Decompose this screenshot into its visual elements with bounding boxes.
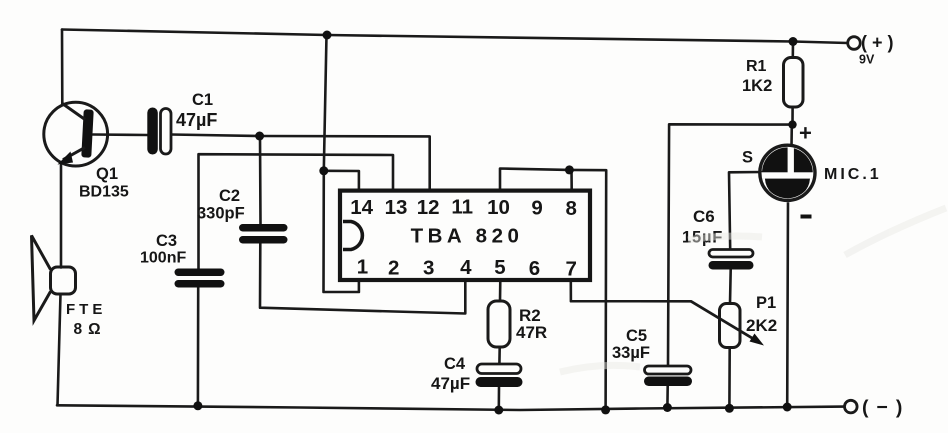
- node ground MIC.1: [783, 403, 792, 412]
- svg-text:47µF: 47µF: [431, 374, 470, 393]
- wire top +9V rail: [62, 30, 848, 44]
- node C pins 8-10 junction: [565, 165, 574, 174]
- wire C5 to ground rail: [666, 386, 669, 407]
- svg-text:100nF: 100nF: [140, 250, 186, 267]
- wire node B to pin 14: [324, 171, 359, 191]
- wire R1 to node E: [791, 107, 794, 125]
- node ground C3: [193, 401, 202, 410]
- transistor Q1: [44, 102, 108, 166]
- svg-text:4: 4: [460, 256, 472, 279]
- svg-text:11: 11: [451, 196, 473, 219]
- wire speaker to ground rail: [58, 294, 61, 405]
- scan smudges (decorative): [560, 208, 946, 372]
- wire MIC.1 to ground rail: [786, 200, 789, 407]
- wire node C to ground rail: [569, 170, 606, 410]
- node A junction after C1: [255, 132, 264, 141]
- wire MIC.1 S to C6: [729, 172, 762, 250]
- node ground P1: [725, 404, 734, 413]
- svg-text:R1: R1: [746, 58, 767, 75]
- svg-text:C6: C6: [693, 207, 715, 226]
- terminal (-): [845, 400, 858, 413]
- node ground C5: [663, 403, 672, 412]
- svg-text:7: 7: [565, 258, 576, 281]
- speaker FTE: [32, 236, 76, 321]
- svg-text:330pF: 330pF: [197, 205, 245, 223]
- capacitor C1: [147, 108, 171, 155]
- svg-text:(−): (−): [862, 397, 910, 419]
- svg-text:C3: C3: [156, 232, 177, 250]
- svg-text:C1: C1: [192, 91, 213, 109]
- node top rail R1 junction: [789, 37, 798, 46]
- svg-text:2K2: 2K2: [746, 316, 777, 335]
- potentiometer P1: [720, 304, 741, 348]
- wire node E to C5: [668, 124, 792, 366]
- svg-text:13: 13: [385, 196, 408, 219]
- svg-text:3: 3: [423, 257, 434, 280]
- label mic minus: [801, 215, 812, 219]
- node E mic supply junction: [788, 120, 796, 128]
- potentiometer P1 wiper arrow: [691, 301, 764, 345]
- wire P1 to ground rail: [728, 348, 731, 409]
- wire C4 to ground rail: [497, 388, 500, 411]
- svg-text:33µF: 33µF: [612, 344, 650, 362]
- capacitor C5: [644, 366, 692, 386]
- svg-text:TBA 820: TBA 820: [411, 225, 524, 248]
- capacitor C4: [476, 364, 523, 387]
- wire pin 13 to C3: [199, 154, 394, 269]
- svg-text:FTE: FTE: [66, 301, 106, 318]
- wire node E to MIC.1: [790, 125, 793, 147]
- wire pin 8 stub: [570, 170, 573, 191]
- capacitor C3: [175, 269, 225, 288]
- svg-text:6: 6: [529, 257, 540, 280]
- svg-text:S: S: [742, 149, 753, 167]
- U1 pin numbers bottom row: [357, 256, 577, 281]
- wire pin 10 to node C: [500, 169, 569, 191]
- wire C3 to ground rail: [197, 288, 200, 406]
- wire node A to pin 12: [260, 136, 430, 191]
- svg-text:MIC.1: MIC.1: [824, 166, 882, 183]
- resistor R1: [784, 58, 804, 108]
- wire R2 to C4: [498, 347, 501, 364]
- wire pin 5 to R2: [499, 280, 502, 301]
- svg-text:8Ω: 8Ω: [74, 321, 107, 338]
- wire Q1 base to C1: [93, 133, 148, 136]
- svg-text:1: 1: [357, 256, 368, 279]
- svg-text:2: 2: [388, 257, 399, 280]
- U1 pin numbers top row: [350, 196, 577, 221]
- svg-text:Q1: Q1: [96, 165, 118, 183]
- wire C6 to P1: [729, 270, 732, 304]
- node ground C4: [494, 406, 503, 415]
- svg-text:9: 9: [531, 197, 542, 220]
- svg-text:47R: 47R: [516, 323, 547, 342]
- node top rail junction: [323, 31, 332, 40]
- microphone MIC.1: [760, 145, 816, 201]
- svg-text:C5: C5: [626, 327, 647, 345]
- wire node B to pin 1: [324, 171, 359, 292]
- svg-text:C4: C4: [444, 355, 466, 373]
- svg-text:8: 8: [565, 197, 576, 220]
- wire Q1 collector to top rail: [61, 30, 64, 105]
- svg-text:14: 14: [350, 196, 373, 219]
- wire pin 7 to P1 wiper: [571, 280, 691, 301]
- wire Q1 emitter to speaker: [60, 165, 63, 268]
- wire top rail to node B: [324, 35, 327, 171]
- capacitor C2: [239, 224, 288, 244]
- op-amp U1 TBA 820 IC body: [340, 191, 590, 280]
- svg-text:P1: P1: [756, 294, 776, 312]
- node B pins 14-1 junction: [319, 166, 328, 175]
- node ground node C drop: [601, 405, 610, 414]
- resistor R2: [488, 301, 510, 347]
- svg-text:10: 10: [487, 196, 510, 219]
- svg-text:5: 5: [494, 256, 505, 279]
- svg-text:47µF: 47µF: [176, 110, 217, 130]
- svg-text:12: 12: [417, 196, 440, 219]
- svg-text:(+): (+): [861, 33, 899, 53]
- capacitor C6: [709, 250, 754, 270]
- terminal (+): [848, 37, 861, 50]
- svg-text:BD135: BD135: [79, 184, 129, 201]
- svg-text:C2: C2: [219, 187, 240, 205]
- wire node A to C2: [259, 136, 262, 225]
- wire C1 to node A: [171, 135, 260, 137]
- svg-text:9V: 9V: [859, 53, 875, 67]
- wire top rail to R1: [791, 42, 794, 58]
- svg-text:1K2: 1K2: [742, 77, 772, 95]
- wire ground rail: [57, 405, 844, 410]
- wire C2 to pin 4: [260, 244, 465, 314]
- svg-text:+: +: [799, 121, 812, 146]
